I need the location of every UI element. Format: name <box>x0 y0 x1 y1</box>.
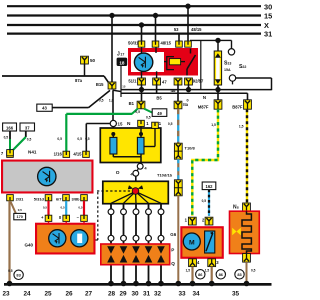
svg-text:34: 34 <box>192 291 200 298</box>
svg-text:1,5: 1,5 <box>239 125 244 129</box>
svg-text:13: 13 <box>227 62 231 66</box>
svg-text:28: 28 <box>108 291 116 298</box>
svg-text:166: 166 <box>6 125 14 130</box>
svg-text:4/15: 4/15 <box>73 151 82 156</box>
svg-text:B1: B1 <box>129 101 135 106</box>
svg-text:Q: Q <box>171 261 175 266</box>
svg-text:0,5: 0,5 <box>18 208 23 212</box>
svg-text:5/31d: 5/31d <box>34 196 45 201</box>
svg-text:31: 31 <box>264 30 272 39</box>
svg-text:15: 15 <box>118 121 123 126</box>
svg-text:26: 26 <box>65 291 73 298</box>
svg-text:47: 47 <box>162 79 167 84</box>
svg-text:s: s <box>237 205 239 209</box>
svg-text:0,5: 0,5 <box>251 269 256 273</box>
svg-text:0,5: 0,5 <box>168 122 173 126</box>
svg-text:30: 30 <box>131 291 139 298</box>
svg-text:6/7: 6/7 <box>56 196 62 201</box>
svg-text:33: 33 <box>178 291 186 298</box>
svg-text:N41: N41 <box>28 150 37 155</box>
svg-text:22: 22 <box>242 65 246 69</box>
svg-text:51/1: 51/1 <box>128 79 137 84</box>
svg-text:1,5: 1,5 <box>186 269 191 273</box>
svg-text:0,5: 0,5 <box>78 206 83 210</box>
svg-text:0,5: 0,5 <box>61 206 66 210</box>
svg-text:15A: 15A <box>224 68 231 72</box>
svg-text:0,5: 0,5 <box>8 269 13 273</box>
svg-text:O: O <box>116 170 120 176</box>
svg-text:G6: G6 <box>170 232 176 237</box>
svg-text:M87F: M87F <box>198 105 209 110</box>
svg-text:N: N <box>127 121 131 127</box>
svg-text:92/87: 92/87 <box>193 79 204 84</box>
svg-text:M: M <box>189 240 195 247</box>
svg-text:37: 37 <box>25 125 30 130</box>
svg-text:49: 49 <box>157 111 162 116</box>
svg-text:0,5: 0,5 <box>57 137 62 141</box>
svg-text:24: 24 <box>23 291 31 298</box>
svg-text:30: 30 <box>264 2 272 11</box>
svg-text:1,5: 1,5 <box>211 123 216 127</box>
svg-text:17: 17 <box>120 52 124 56</box>
svg-text:15: 15 <box>264 12 272 21</box>
svg-text:B15: B15 <box>96 82 104 87</box>
svg-text:48: 48 <box>171 88 176 93</box>
svg-text:0,5: 0,5 <box>135 110 140 114</box>
svg-text:N: N <box>203 95 206 100</box>
svg-text:170: 170 <box>17 215 23 219</box>
svg-text:0,5: 0,5 <box>146 115 151 119</box>
svg-text:25: 25 <box>44 291 52 298</box>
svg-text:T10/8: T10/8 <box>185 146 196 151</box>
svg-text:G40: G40 <box>24 242 33 247</box>
svg-text:48/15: 48/15 <box>191 27 202 32</box>
svg-text:0,5: 0,5 <box>77 137 82 141</box>
svg-text:48/15: 48/15 <box>161 41 172 46</box>
svg-text:31: 31 <box>143 291 151 298</box>
svg-text:162: 162 <box>206 184 214 189</box>
svg-text:0,5: 0,5 <box>202 199 207 203</box>
svg-text:0,5: 0,5 <box>4 136 9 140</box>
svg-text:23: 23 <box>2 291 10 298</box>
svg-text:1/16: 1/16 <box>54 151 63 156</box>
svg-text:53: 53 <box>174 27 179 32</box>
svg-text:1,5: 1,5 <box>205 269 210 273</box>
svg-text:0,5: 0,5 <box>43 206 48 210</box>
svg-text:50/31: 50/31 <box>128 41 139 46</box>
svg-text:18: 18 <box>119 60 125 65</box>
svg-text:T10d/1b: T10d/1b <box>157 173 173 178</box>
svg-text:27: 27 <box>85 291 93 298</box>
svg-text:0,5: 0,5 <box>85 137 90 141</box>
svg-text:29: 29 <box>119 291 127 298</box>
svg-text:32: 32 <box>154 291 162 298</box>
svg-text:2/31: 2/31 <box>16 196 25 201</box>
svg-text:87a: 87a <box>75 78 83 83</box>
svg-text:3/8b: 3/8b <box>71 196 80 201</box>
svg-text:0,5: 0,5 <box>99 98 104 102</box>
svg-text:15: 15 <box>122 85 126 89</box>
svg-text:IIa: IIa <box>183 102 188 107</box>
svg-text:P: P <box>171 247 174 252</box>
svg-text:B5: B5 <box>156 96 162 101</box>
svg-text:43: 43 <box>42 106 47 111</box>
svg-text:50: 50 <box>90 58 96 63</box>
svg-text:35: 35 <box>232 291 240 298</box>
svg-text:0,5: 0,5 <box>27 137 32 141</box>
svg-text:B87F: B87F <box>232 105 243 110</box>
